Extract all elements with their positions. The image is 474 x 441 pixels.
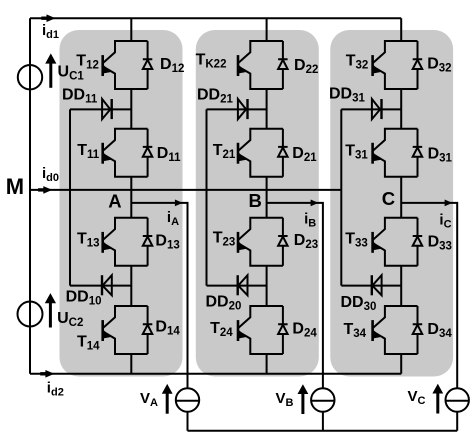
- diode D24: [278, 306, 288, 354]
- source VB: [311, 388, 334, 411]
- transistor T12: [103, 41, 148, 89]
- wire clamp lower leg C: [341, 285, 401, 287]
- arrow iA: [175, 200, 183, 207]
- diode D32: [413, 41, 423, 89]
- svg-text:B: B: [249, 190, 262, 211]
- wire top DC bus: [30, 17, 401, 19]
- source VA: [176, 388, 199, 411]
- arrow UC1: [45, 53, 56, 87]
- wire clamp vertical leg B: [206, 109, 208, 285]
- wire bottom DC bus: [30, 373, 401, 375]
- arrow id0: [38, 186, 52, 194]
- svg-text:A: A: [108, 190, 121, 211]
- capacitor source UC1 circle: [18, 65, 42, 89]
- arrow iB: [311, 200, 319, 207]
- arrow UC2: [45, 293, 56, 327]
- clamp diode DD21: [238, 99, 248, 119]
- diode D34: [413, 306, 423, 354]
- transistor T34: [373, 306, 418, 354]
- transistor TK22: [238, 41, 283, 89]
- transistor T11: [103, 129, 148, 177]
- diode D13: [143, 218, 153, 266]
- arrow VC: [432, 384, 443, 414]
- leg A background: [60, 30, 183, 377]
- clamp diode DD31: [372, 99, 382, 119]
- clamp diode DD10: [102, 275, 112, 295]
- wire clamp upper leg A: [70, 108, 131, 110]
- diode D23: [278, 218, 288, 266]
- wire leg B stems: [266, 18, 268, 374]
- wire phase C output: [401, 203, 457, 431]
- svg-text:C: C: [382, 188, 395, 209]
- transistor T23: [238, 218, 283, 266]
- wire clamp upper leg B: [207, 108, 267, 110]
- transistor T33: [373, 218, 418, 266]
- arrow id2: [40, 370, 54, 378]
- diode D22: [278, 41, 288, 89]
- wire load return: [188, 430, 458, 432]
- arrow VA: [162, 384, 173, 414]
- diode D33: [413, 218, 423, 266]
- source VC: [446, 388, 469, 411]
- transistor T32: [373, 41, 418, 89]
- diode D14: [143, 306, 153, 354]
- clamp diode DD11: [102, 99, 112, 119]
- wire clamp upper leg C: [341, 108, 401, 110]
- wire clamp lower leg B: [207, 285, 267, 287]
- clamp diode DD30: [372, 275, 382, 295]
- wire clamp vertical leg C: [340, 109, 342, 285]
- transistor T31: [373, 129, 418, 177]
- transistor T24: [238, 306, 283, 354]
- wire clamp vertical leg A: [69, 109, 71, 285]
- wire left DC bus: [29, 18, 31, 374]
- wire leg A stems: [130, 18, 132, 374]
- diode D31: [413, 129, 423, 177]
- transistor T13: [103, 218, 148, 266]
- arrow id1: [41, 14, 55, 22]
- wire leg C stems: [400, 18, 402, 374]
- transistor T14: [103, 306, 148, 354]
- svg-text:M: M: [6, 174, 24, 199]
- diode D12: [143, 41, 153, 89]
- capacitor source UC2 circle: [18, 302, 43, 327]
- wire M neutral line: [30, 189, 341, 191]
- arrow VB: [298, 384, 309, 414]
- diode D21: [278, 129, 288, 177]
- clamp diode DD20: [238, 275, 248, 295]
- transistor T21: [238, 129, 283, 177]
- diode D11: [143, 129, 153, 177]
- wire phase B output: [267, 203, 323, 431]
- arrow iC: [445, 200, 453, 207]
- wire clamp lower leg A: [70, 285, 131, 287]
- leg C background: [330, 30, 453, 377]
- leg B background: [196, 30, 319, 377]
- wire phase A output: [131, 203, 187, 431]
